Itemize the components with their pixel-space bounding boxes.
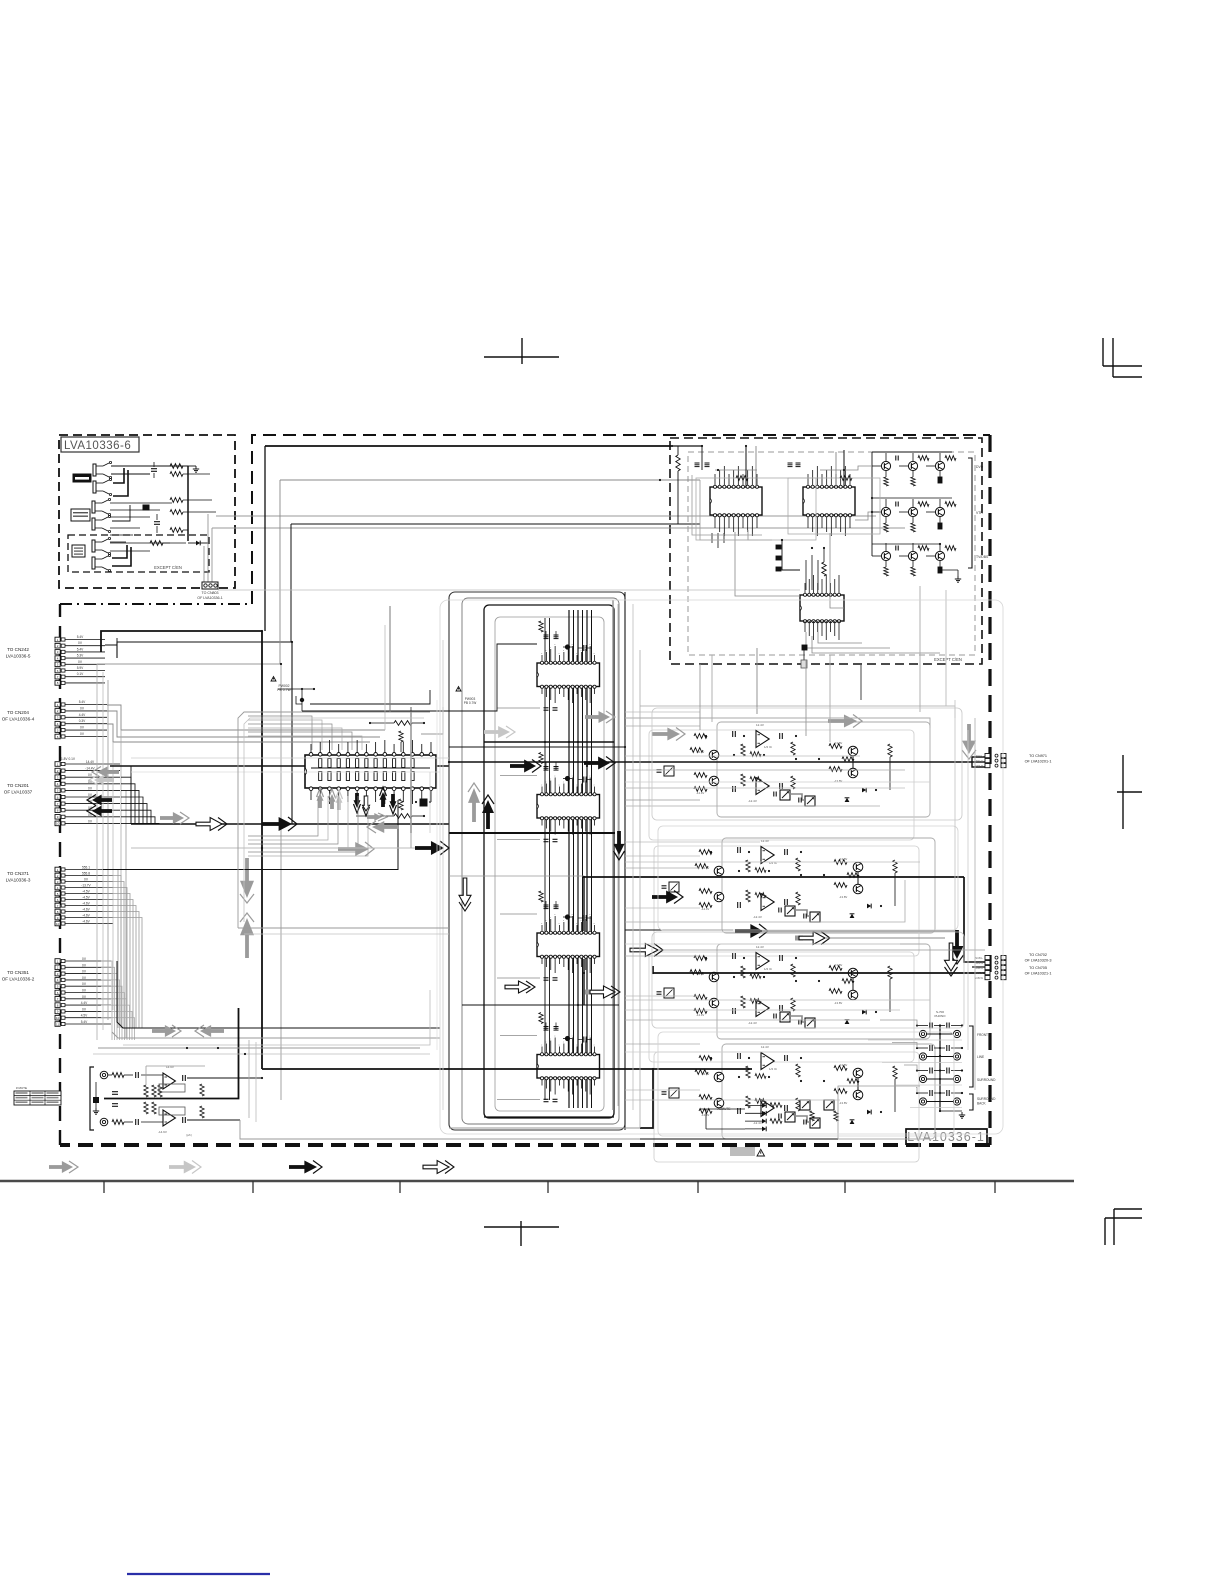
black cap IC202 upper	[565, 776, 570, 781]
junction dots top right	[701, 445, 703, 447]
cap IC201 right upper	[583, 645, 585, 651]
svg-text:TO CN702: TO CN702	[1029, 953, 1047, 957]
wire top right entry	[673, 445, 702, 447]
svg-text:TO CN242: TO CN242	[7, 647, 29, 652]
caps below IC204	[544, 1098, 549, 1100]
svg-text:MIX-R: MIX-R	[976, 764, 983, 768]
caps below IC203	[544, 977, 549, 979]
svg-text:SUB-R: SUB-R	[975, 966, 983, 970]
gray long horizontals right region	[625, 755, 860, 757]
svg-text:-14.4V: -14.4V	[701, 907, 709, 911]
wire bus CN204 right	[107, 705, 385, 730]
trimmer VR31	[780, 1012, 790, 1022]
wire grid top rail	[872, 451, 952, 453]
connector CN351 pins	[55, 959, 60, 964]
transistor Q21	[714, 866, 724, 876]
output caps 3	[779, 955, 781, 961]
resistor R601	[170, 464, 183, 469]
cluster block 3 wires	[717, 944, 930, 1039]
jack group J603 ex-compu-link	[92, 540, 95, 552]
center column loop 3	[484, 605, 614, 1118]
wire down to CN803	[203, 546, 205, 582]
transistor Q41	[714, 1072, 724, 1082]
inner dashed box except c/en (top right)	[670, 438, 982, 664]
wires below IC301 fan	[248, 796, 318, 836]
transistor Q14	[848, 768, 858, 778]
svg-text:-14.4V: -14.4V	[85, 767, 95, 771]
ic IC202	[537, 795, 600, 819]
cap near trimmer 1	[773, 792, 775, 797]
wires grid interconnect	[748, 530, 772, 540]
svg-text:TV/DBS: TV/DBS	[976, 555, 989, 559]
diode D21	[867, 904, 871, 909]
label box LVA10336-1	[906, 1129, 987, 1145]
black cap below IC703	[802, 645, 807, 650]
svg-text:-13.8V: -13.8V	[834, 779, 842, 783]
gray horizontals column to clusters	[625, 711, 700, 713]
op-amp U2A	[761, 847, 774, 864]
heavy feed wire into block9	[104, 1008, 239, 1099]
svg-text:-13.8V: -13.8V	[839, 895, 847, 899]
load resistors 1	[791, 742, 795, 755]
svg-text:-13.8V: -13.8V	[839, 857, 847, 861]
label box compu link	[73, 474, 91, 482]
op-amp U4B	[761, 1100, 774, 1117]
resistor R902	[112, 1120, 124, 1125]
svg-text:-4.5V: -4.5V	[82, 890, 90, 894]
transistor Q732	[908, 551, 917, 560]
arrow gray right top y721	[828, 719, 846, 723]
opto box 4	[669, 1088, 679, 1098]
arrow black down x957	[955, 930, 959, 948]
svg-text:4.4V: 4.4V	[81, 1001, 88, 1005]
warning note PW002	[271, 677, 276, 682]
wires IC701-702 bus	[711, 533, 713, 543]
resistor above IC203	[539, 891, 543, 902]
column rail y1117	[484, 1116, 614, 1118]
arrow gray left bottom bus	[209, 1029, 224, 1033]
svg-text:TO CN803: TO CN803	[201, 591, 218, 595]
arrow gray right bottom bus	[152, 1029, 167, 1033]
svg-text:LVA10336-5: LVA10336-5	[6, 654, 31, 659]
center column loop 2	[462, 598, 619, 1124]
svg-text:1.8V 0.1V: 1.8V 0.1V	[61, 757, 76, 761]
gray wire CN803 mid	[218, 589, 800, 591]
caps input 1	[732, 731, 734, 737]
svg-text:OF LVA10337: OF LVA10337	[4, 790, 33, 795]
gray bus lines right mid	[625, 841, 760, 843]
feedback loop block9 U9B	[159, 1107, 185, 1115]
transistor Q712	[908, 461, 917, 470]
transistor Q13	[848, 746, 858, 756]
legend arrow black	[289, 1165, 306, 1169]
transistor Q24	[853, 884, 863, 894]
svg-text:-13.8V: -13.8V	[839, 1063, 847, 1067]
wire left entry IC202	[500, 775, 537, 777]
svg-text:-12.4V: -12.4V	[748, 799, 757, 803]
caps row 1	[929, 1023, 931, 1029]
warning triangle bottom	[757, 1149, 765, 1156]
transistor Q42	[714, 1098, 724, 1108]
junction y723	[423, 722, 425, 724]
ic IC203	[537, 933, 600, 957]
arrow gray up x247	[245, 933, 249, 958]
junction dots block9 rails	[217, 1047, 219, 1049]
cap C701	[695, 462, 700, 464]
ic IC703	[800, 595, 844, 621]
svg-text:-4.6V: -4.6V	[82, 920, 90, 924]
arrows below IC301	[318, 799, 322, 808]
resistor ladder left 1	[694, 734, 707, 739]
arrow gray left y827	[382, 825, 399, 829]
junction dots scattered	[261, 630, 263, 632]
resistor R903 vertical	[200, 1084, 204, 1096]
svg-text:12.4V: 12.4V	[756, 945, 764, 949]
jack ground	[940, 1110, 962, 1112]
svg-text:10: 10	[56, 1016, 60, 1020]
svg-text:SUB-W: SUB-W	[974, 976, 983, 980]
ic IC701 leads	[714, 474, 716, 485]
svg-text:PB 0.7W: PB 0.7W	[464, 701, 477, 705]
svg-text:-4.5V: -4.5V	[82, 896, 90, 900]
cluster block 2 wires	[722, 838, 935, 933]
arrow gray right y818	[160, 816, 175, 820]
registration mark top right	[1102, 338, 1104, 366]
transistor Q23	[853, 862, 863, 872]
arrow black right y931	[735, 929, 752, 933]
arrow white down x951	[945, 943, 958, 971]
svg-text:-4.6V: -4.6V	[82, 902, 90, 906]
cap near trimmer 3	[773, 1014, 775, 1019]
svg-text:5.4V: 5.4V	[77, 647, 84, 651]
resistor R313 vertical low	[399, 799, 403, 810]
svg-text:-13.8V: -13.8V	[834, 963, 842, 967]
svg-text:-14.4V: -14.4V	[701, 866, 709, 870]
resistor R606	[150, 541, 163, 546]
bracket jacks 2	[969, 1094, 973, 1110]
wires module6 group3	[110, 542, 170, 544]
wire trunk vertical x292	[291, 642, 293, 824]
wire trunk vertical x281	[280, 664, 282, 1100]
svg-text:14.4V: 14.4V	[86, 760, 95, 764]
ic IC301 pins	[309, 753, 313, 757]
svg-text:-4.6V: -4.6V	[82, 914, 90, 918]
bracket jacks 1	[969, 1026, 973, 1087]
wires module6 group2	[110, 502, 172, 504]
wires module6 group1	[111, 465, 188, 467]
board outline LVA10336-1 dashed boundary	[252, 435, 990, 604]
jack group J601 compu-link	[93, 464, 96, 476]
signal heavy line y877	[584, 876, 964, 878]
center column outer loop	[449, 592, 625, 1130]
signal line CN201 to right (y766)	[110, 765, 449, 767]
ic IC204 bottom leads	[541, 1080, 543, 1086]
black cap C602	[143, 505, 149, 510]
junction dots cluster 1	[705, 735, 707, 737]
cap C702	[788, 462, 793, 464]
bottom bus loop	[117, 961, 440, 1028]
arrow white right column y992	[585, 990, 592, 995]
diode D22	[850, 914, 855, 918]
arrow gray right column y717	[585, 715, 601, 719]
svg-text:-14.4V: -14.4V	[696, 791, 704, 795]
long gray loop big right	[652, 708, 962, 820]
wires CN351 fan	[101, 961, 112, 1040]
gray wire CN803 right y516	[216, 515, 876, 517]
svg-text:5.9V: 5.9V	[77, 666, 84, 670]
svg-text:4.4V: 4.4V	[79, 713, 86, 717]
svg-text:-4.6V: -4.6V	[82, 908, 90, 912]
transistor Q12	[709, 776, 719, 786]
output caps 4	[784, 1055, 786, 1061]
center column loop 4	[495, 617, 604, 1111]
black cap IC201 upper	[565, 644, 570, 649]
resistor far right 3	[888, 966, 892, 979]
black square y802	[420, 799, 427, 806]
arrow gray down x969	[967, 724, 971, 743]
diode D32	[845, 1020, 850, 1024]
caps below IC201	[544, 707, 549, 709]
svg-text:LVA10336-3: LVA10336-3	[6, 878, 31, 883]
svg-text:5.4V: 5.4V	[79, 700, 86, 704]
wire pw002 down	[296, 696, 302, 704]
ic IC701	[710, 487, 762, 515]
wire bus vertical gray left	[96, 664, 98, 1040]
svg-text:TO CN971: TO CN971	[1029, 754, 1047, 758]
transistor Q34	[848, 990, 858, 1000]
wire feeds down from module	[745, 446, 747, 487]
resistor R702 vertical above IC703	[822, 562, 826, 576]
svg-text:-12.4V: -12.4V	[753, 915, 762, 919]
svg-text:-14.4V: -14.4V	[701, 1113, 709, 1117]
transistor Q711	[881, 461, 890, 470]
resistor above IC202	[539, 753, 543, 764]
junction dots cluster 2	[710, 851, 712, 853]
svg-text:12.4V: 12.4V	[756, 723, 764, 727]
crop mark middle right	[1122, 755, 1124, 829]
caps above IC202	[544, 766, 549, 768]
junction dot y480	[659, 479, 661, 481]
caps input block9	[135, 1072, 137, 1078]
vertical wire x390	[389, 606, 391, 712]
black cap IC203 upper	[565, 914, 570, 919]
transistor Q32	[709, 998, 719, 1008]
svg-text:-13.8V: -13.8V	[839, 1101, 847, 1105]
gray wires between column and left	[131, 757, 449, 759]
jack group J602 text-compu-link	[92, 501, 95, 513]
column heavy rail y742	[484, 741, 614, 743]
arrow light gray right column y732	[484, 730, 500, 734]
block D envelope loops	[238, 712, 430, 928]
transistor Q731	[881, 551, 890, 560]
wire left entry IC204	[500, 1035, 537, 1037]
transistor Q713	[935, 461, 944, 470]
resistor R701 vertical	[676, 455, 680, 471]
load resistors 4	[796, 1064, 800, 1077]
resistor R604	[170, 510, 183, 515]
gray power vertical x411	[410, 707, 412, 833]
connector CN702	[985, 956, 990, 960]
feedback resistors 3	[741, 966, 745, 978]
trimmer VR12	[805, 796, 815, 806]
resistor far right 1	[888, 744, 892, 757]
heavy vertical x584	[583, 877, 585, 931]
svg-text:SURROUND: SURROUND	[977, 1097, 996, 1101]
jack pair row 4	[919, 1098, 926, 1105]
load resistors 2	[796, 858, 800, 871]
svg-text:1/2 IC: 1/2 IC	[764, 967, 773, 971]
bracket top-right grid	[968, 458, 972, 568]
op-amp U2B	[761, 894, 774, 911]
diode D12	[845, 798, 850, 802]
feedback resistors 1	[741, 744, 745, 756]
diode D601	[196, 541, 200, 546]
cap IC204 right upper	[583, 1037, 585, 1043]
svg-text:11: 11	[56, 1022, 59, 1026]
svg-text:-12.4V: -12.4V	[748, 1021, 757, 1025]
caps row 2	[929, 1045, 931, 1051]
cluster block 1 wires	[717, 722, 930, 817]
svg-text:TO CN371: TO CN371	[7, 871, 29, 876]
wires below IC703	[806, 632, 890, 648]
cap near trimmer 2	[778, 908, 780, 913]
opto box 1	[664, 766, 674, 776]
connector CN201 pins	[55, 762, 60, 767]
transistor Q33	[848, 968, 858, 978]
svg-text:LINE: LINE	[977, 1055, 984, 1059]
svg-text:VTR: VTR	[976, 511, 983, 515]
arrow gray down x247	[245, 858, 249, 883]
giant gray loop center	[440, 600, 1003, 1134]
transistor Q44	[853, 1090, 863, 1100]
wire bus CN242 to top	[105, 638, 117, 645]
transistor Q721	[881, 507, 890, 516]
ic IC204 top leads	[541, 1047, 543, 1053]
ic IC202 top leads	[541, 787, 543, 793]
gray rails above block9	[98, 1047, 420, 1049]
svg-text:(p/b): (p/b)	[186, 1133, 192, 1137]
svg-text:TO CN705: TO CN705	[1029, 966, 1047, 970]
wires above IC301 fan	[310, 690, 430, 704]
long gray crossing wires	[338, 847, 345, 849]
svg-text:-14.4V: -14.4V	[696, 750, 704, 754]
opto box 2	[669, 882, 679, 892]
crop mark bottom center	[484, 1226, 559, 1228]
caps above IC204	[544, 1026, 549, 1028]
legend arrow gray	[49, 1165, 64, 1169]
output wires block9	[187, 1077, 262, 1079]
resistor R310 horizontal top	[394, 721, 412, 726]
arrow gray up column x474	[472, 801, 476, 822]
caps input 4	[737, 1053, 739, 1059]
input jack J2	[100, 1118, 108, 1126]
svg-text:DVD: DVD	[976, 465, 984, 469]
heavy line block4	[653, 1068, 752, 1070]
ic IC204	[537, 1055, 600, 1079]
resistor R312 horizontal bottom	[394, 814, 412, 819]
connector CN204 pins	[55, 702, 60, 707]
verticals module to clusters	[699, 664, 701, 730]
arrow white down column x465	[459, 878, 471, 906]
svg-text:1/2 IC: 1/2 IC	[769, 1067, 778, 1071]
output caps block9	[182, 1075, 184, 1081]
column heavy rail y833	[449, 832, 615, 834]
arrow black right column y763	[584, 761, 600, 765]
resistor above IC204	[539, 1013, 543, 1024]
caps row 4	[929, 1090, 931, 1096]
op-amp U4A	[761, 1053, 774, 1070]
ic IC301 bottom leads	[310, 791, 312, 801]
arrow white right column y987	[505, 981, 530, 993]
arrow white right y950	[630, 944, 658, 957]
svg-text:SIG-S: SIG-S	[976, 759, 983, 763]
arrow black right y848	[415, 846, 433, 850]
svg-text:-14.4V: -14.4V	[701, 1072, 709, 1076]
wire block9 top entries	[141, 1074, 163, 1076]
arrow white right y824	[196, 818, 222, 831]
inner dashed box except c/en (module 6)	[68, 535, 209, 572]
svg-text:-14.4V: -14.4V	[696, 1013, 704, 1017]
column rail y1005	[462, 1004, 619, 1006]
right resistors 4	[834, 1066, 847, 1071]
column heavy rail y747	[449, 746, 625, 748]
junction dots cluster 4	[710, 1057, 712, 1059]
arrow black right column y766	[510, 764, 526, 768]
ic IC301 top leads	[310, 744, 312, 753]
bottom wire y1139	[640, 1138, 838, 1140]
arrow light gray left at CN201	[102, 778, 114, 782]
caps row 3	[929, 1068, 931, 1074]
transistor Q11	[709, 750, 719, 760]
wire y848 to column	[131, 847, 415, 849]
column bus pair	[544, 618, 546, 1100]
blue underline bottom left	[127, 1573, 270, 1575]
svg-text:-14.9V: -14.9V	[158, 1130, 167, 1134]
wire top thick y446	[265, 445, 673, 447]
junction dots cluster 3	[705, 957, 707, 959]
column bus verticals	[568, 610, 570, 1108]
module outline LVA10336-6 dashed box	[59, 435, 235, 588]
jack bus vertical	[939, 1025, 941, 1111]
column right gray verticals	[612, 600, 614, 1110]
wire y524	[291, 523, 700, 525]
svg-text:555.1: 555.1	[82, 866, 90, 870]
wire trunk vertical x262	[261, 631, 263, 1069]
svg-text:10: 10	[56, 822, 60, 826]
diode D31	[862, 1010, 866, 1015]
diode D42	[850, 1120, 855, 1124]
svg-text:SURROUND: SURROUND	[977, 1078, 996, 1082]
svg-text:EXCEPT C/EN: EXCEPT C/EN	[934, 657, 962, 662]
resistor ladder left 4	[699, 1056, 712, 1061]
transistor Q723	[935, 507, 944, 516]
svg-text:4.5V: 4.5V	[81, 1014, 88, 1018]
svg-text:OF LVA10336-2: OF LVA10336-2	[2, 977, 35, 982]
svg-text:OF LVA10321-1: OF LVA10321-1	[1025, 972, 1052, 976]
black caps IC703 left	[776, 545, 781, 549]
right resistors 1	[829, 744, 842, 749]
arrow gray right top y734	[652, 732, 669, 736]
svg-text:EXCEPT C/EN: EXCEPT C/EN	[154, 565, 182, 570]
crop mark top center	[484, 356, 559, 358]
gray loop around IC701	[696, 478, 816, 540]
svg-text:OF LVA10336-4: OF LVA10336-4	[2, 717, 35, 722]
trimmer VR22	[810, 912, 820, 922]
svg-text:SIG-G: SIG-G	[976, 961, 983, 965]
arrow gray right y849	[338, 847, 357, 851]
resistor R901	[112, 1073, 124, 1078]
svg-text:5.3V: 5.3V	[77, 654, 84, 658]
